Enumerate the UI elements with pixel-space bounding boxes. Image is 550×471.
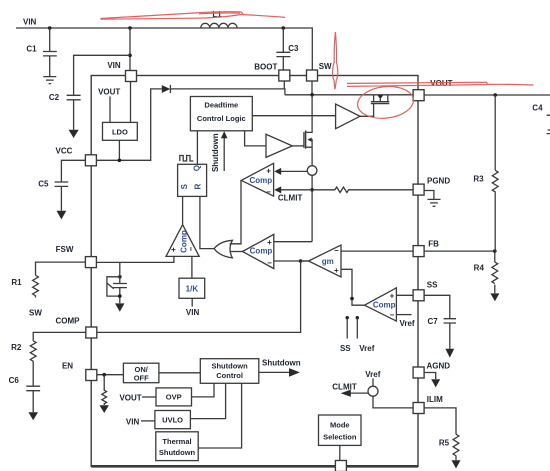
label CLMIT (Vref source) with arrow <box>332 383 368 397</box>
svg-text:BOOT: BOOT <box>254 63 277 72</box>
svg-text:C4: C4 <box>532 104 543 113</box>
wire SS comp- Vref stub <box>396 315 414 328</box>
pin SS <box>413 281 438 301</box>
wire gm out to COMP pin <box>97 261 309 332</box>
svg-text:ILIM: ILIM <box>427 395 443 404</box>
svg-text:UVLO: UVLO <box>162 416 183 425</box>
wire UVLO to shutdown control <box>190 383 225 418</box>
svg-text:OFF: OFF <box>134 374 149 383</box>
svg-text:SS: SS <box>340 344 351 353</box>
capacitor C7 <box>428 317 457 349</box>
comparator U2 current-limit Comp <box>241 163 273 196</box>
svg-text:COMP: COMP <box>56 316 81 325</box>
svg-text:gm: gm <box>322 257 334 266</box>
svg-text:Shutdown: Shutdown <box>159 448 196 457</box>
svg-text:SW: SW <box>319 62 332 71</box>
resistor Rsense <box>312 187 413 192</box>
wire gm- to FB <box>341 250 413 252</box>
block LDO <box>103 122 138 140</box>
ground (PGND) <box>424 191 440 207</box>
node dot C3 tap <box>282 26 286 30</box>
wire Thermal to shutdown control <box>198 383 241 448</box>
block Shutdown Control <box>200 359 258 384</box>
node dot gm+ tap <box>350 297 354 301</box>
wire Vref to circle <box>372 379 374 387</box>
block Mode Selection <box>319 415 362 445</box>
svg-text:AGND: AGND <box>427 362 451 371</box>
svg-text:VOUT: VOUT <box>430 79 452 88</box>
comparator U7 SS Comp <box>365 288 397 321</box>
block 1/K <box>179 278 205 298</box>
wire R3 top <box>494 95 496 170</box>
svg-text:VIN: VIN <box>186 308 200 317</box>
svg-text:+: + <box>334 266 339 275</box>
svg-text:PGND: PGND <box>427 176 450 185</box>
block OVP <box>156 388 192 406</box>
wire driver to NMOS gate <box>292 145 304 147</box>
annotation red stroke over VIN/L1 <box>101 12 285 20</box>
pin AGND <box>413 362 450 378</box>
wire ON/OFF to shutdown control <box>159 372 200 374</box>
wire 1/K to VIN label <box>191 298 193 306</box>
pin BOOT <box>254 63 290 82</box>
annotation red ellipse around PMOS <box>356 84 415 121</box>
pin PGND <box>413 176 450 195</box>
block Deadtime Control Logic <box>190 97 252 131</box>
pin FSW <box>56 245 97 268</box>
wire VCC pin left <box>61 160 85 181</box>
svg-text:VIN: VIN <box>107 61 121 70</box>
amplifier gm <box>309 245 342 277</box>
wire SW node down to NMOS drain <box>306 95 313 133</box>
svg-text:+: + <box>390 292 395 301</box>
node dot EN pulldown tap <box>102 373 106 377</box>
wire VIN to UVLO <box>141 420 155 422</box>
wire SS pin to C7 <box>424 295 450 318</box>
svg-text:SW: SW <box>29 308 42 317</box>
svg-text:Thermal: Thermal <box>162 437 191 446</box>
capacitor C3 <box>276 28 299 70</box>
pin FB <box>413 240 439 257</box>
svg-text:Q: Q <box>192 165 201 171</box>
svg-text:Shutdown: Shutdown <box>262 359 301 368</box>
svg-text:−: − <box>390 311 395 320</box>
label Shutdown (rotated) with arrow <box>211 131 227 172</box>
wire AGND ground <box>424 373 436 380</box>
buffer low-side driver <box>266 134 292 157</box>
annotation red vertical stroke near SW <box>333 32 338 89</box>
svg-text:CLMIT: CLMIT <box>332 383 357 392</box>
svg-text:Mode: Mode <box>330 421 350 430</box>
inductor L1 <box>201 10 237 28</box>
wire OR top input <box>230 243 241 245</box>
capacitor C1 <box>26 28 56 76</box>
svg-text:Comp: Comp <box>373 300 396 309</box>
resistor R4 <box>474 251 498 293</box>
svg-text:+: + <box>267 238 272 247</box>
svg-text:C6: C6 <box>9 376 20 385</box>
wire FSW pin left <box>36 262 86 275</box>
clock pulse symbol <box>180 156 194 162</box>
wire diode to BOOT/SW node <box>170 89 285 95</box>
resistor R3 <box>473 170 498 251</box>
comparator U6 slope Comp (up) <box>166 225 199 257</box>
ground arrow (EN) <box>100 405 109 413</box>
node dot SW junction <box>310 93 314 97</box>
svg-text:Comp: Comp <box>250 246 273 255</box>
node dot C2 tap <box>128 54 132 58</box>
svg-text:R3: R3 <box>473 175 484 184</box>
wire PWM+ to sense line <box>274 241 312 243</box>
svg-text:Vref: Vref <box>359 344 374 353</box>
svg-text:R1: R1 <box>11 278 22 287</box>
wire Mode Selection to bottom pin <box>339 445 341 460</box>
wire Q to deadtime <box>196 131 198 165</box>
svg-text:Shutdown: Shutdown <box>211 361 248 370</box>
capacitor C5 <box>38 180 68 211</box>
node dot VIN branch <box>128 26 132 30</box>
svg-text:OVP: OVP <box>166 393 182 402</box>
svg-text:EN: EN <box>62 361 73 370</box>
current sense circle <box>307 166 317 176</box>
svg-text:FSW: FSW <box>56 245 74 254</box>
svg-text:VIN: VIN <box>23 18 37 27</box>
ground arrow (C2) <box>69 130 79 138</box>
svg-text:−: − <box>267 258 272 267</box>
wire driver to PMOS gate <box>360 103 374 116</box>
ground arrow (C7) <box>445 349 454 358</box>
svg-text:S: S <box>180 183 189 189</box>
svg-text:+: + <box>169 247 178 252</box>
svg-text:ON/: ON/ <box>135 365 149 374</box>
wire circle to ILIM pin <box>373 396 413 408</box>
svg-text:Vref: Vref <box>399 319 414 328</box>
resistor R5 <box>439 434 459 460</box>
capacitor C2 <box>49 55 130 129</box>
resistor R1 <box>11 275 38 297</box>
wire/arrow CLMIT to Comp- <box>274 186 312 202</box>
node dot LDO/VCC <box>118 159 122 163</box>
pin VOUT <box>413 79 453 101</box>
pin bottom (mode) <box>335 461 346 471</box>
node dot snubber tap <box>118 275 122 279</box>
wire OR bottom input <box>230 251 243 253</box>
wire NMOS source to sense <box>311 147 313 166</box>
node dot FB divider <box>493 249 497 253</box>
svg-text:CLMIT: CLMIT <box>278 194 303 203</box>
transistor Q1 (PMOS pass) <box>371 95 390 104</box>
svg-text:−: − <box>334 246 339 255</box>
wire VIN pin feed <box>129 28 131 71</box>
svg-text:Control Logic: Control Logic <box>197 114 246 123</box>
wire switch node rail to VOUT pin <box>285 94 413 96</box>
wire CL comp out to OR <box>230 180 242 244</box>
node dot R3 tap <box>493 93 497 97</box>
ground arrow (C5) <box>57 211 67 220</box>
flip-flop U3 (S R Q latch) <box>178 164 207 196</box>
svg-text:C3: C3 <box>288 44 299 53</box>
wire COMP pin left <box>33 332 86 340</box>
svg-text:VOUT: VOUT <box>98 88 120 97</box>
node dot sense/CLMIT junction <box>310 188 314 192</box>
svg-text:VIN: VIN <box>126 417 140 426</box>
wire ILIM to R5 <box>424 408 456 434</box>
block UVLO <box>155 411 191 429</box>
resistor R2 <box>11 341 36 386</box>
svg-text:C1: C1 <box>26 45 37 54</box>
wire/arrow sense circle to Comp+ <box>274 168 307 175</box>
transistor Q2 (NMOS) <box>304 130 312 148</box>
wire sense down <box>311 175 313 241</box>
pin ILIM <box>413 395 443 414</box>
svg-text:FB: FB <box>428 240 439 249</box>
wire slope comp - to 1/K <box>191 256 193 278</box>
ground arrow (C6) <box>28 412 38 420</box>
buffer high-side driver <box>336 104 360 129</box>
wire OVP to shutdown control <box>192 383 215 397</box>
wire EN pin to ON/OFF <box>97 374 124 376</box>
capacitor C6 <box>9 376 41 412</box>
switch contacts SS/Vref <box>340 316 375 353</box>
block Thermal Shutdown <box>156 432 198 461</box>
wire VIN rail <box>16 28 312 70</box>
svg-text:Control: Control <box>216 371 243 380</box>
node VOUT rail (right of pin) <box>424 94 550 96</box>
wire PWM- / gm out <box>274 260 309 262</box>
pin EN <box>62 361 97 380</box>
wire VIN pin to LDO <box>130 82 132 123</box>
wire FB to divider <box>424 250 495 252</box>
svg-text:R4: R4 <box>474 264 485 273</box>
wire deadtime to high-side driver <box>252 115 335 117</box>
block ON/OFF <box>123 363 158 383</box>
or-gate U4 <box>214 240 232 258</box>
wire FSW line to slope comp + <box>96 256 173 262</box>
current source circle (ILIM) <box>368 386 378 396</box>
pin VCC <box>56 147 97 166</box>
comparator U5 PWM Comp <box>243 234 274 268</box>
ground arrow (R5) <box>452 460 461 468</box>
svg-text:+: + <box>266 167 271 176</box>
svg-text:VOUT: VOUT <box>119 394 141 403</box>
svg-text:1/K: 1/K <box>186 285 199 294</box>
capacitor C4 (edge clipped) <box>532 104 550 134</box>
wire SW pin down to switch node <box>311 81 313 95</box>
svg-text:−: − <box>266 188 271 197</box>
wire VOUT label to LDO <box>109 97 111 123</box>
pin VIN <box>107 61 136 82</box>
svg-text:SS: SS <box>427 281 438 290</box>
svg-text:Deadtime: Deadtime <box>204 101 238 110</box>
svg-text:−: − <box>187 246 196 251</box>
ground arrow (snubber) <box>115 303 124 311</box>
svg-text:C5: C5 <box>38 180 49 189</box>
svg-text:VCC: VCC <box>56 147 73 156</box>
svg-text:C7: C7 <box>428 317 439 326</box>
wire R input <box>200 196 214 248</box>
wire VOUT to OVP <box>142 396 156 398</box>
wire VCC to diode <box>96 89 161 160</box>
node dot C1 tap <box>48 26 52 30</box>
resistor R-EN pulldown <box>102 375 107 405</box>
annotation red stroke over VOUT <box>347 82 534 86</box>
svg-text:R5: R5 <box>439 439 450 448</box>
ground arrow (AGND) <box>431 379 440 387</box>
svg-text:R2: R2 <box>11 343 22 352</box>
svg-text:C2: C2 <box>49 93 60 102</box>
snubber switch-cap network <box>107 262 127 303</box>
ground (C1) <box>43 77 56 84</box>
wire/arrow Shutdown output <box>259 359 301 377</box>
wire BOOT pin to diode node <box>283 81 285 89</box>
wire S input <box>182 196 184 224</box>
node dot gm out <box>299 259 303 263</box>
svg-text:R: R <box>193 183 202 189</box>
IC boundary outline <box>91 76 418 467</box>
svg-text:Vref: Vref <box>365 370 380 379</box>
wire LDO out to VCC line <box>118 140 120 160</box>
svg-text:Shutdown: Shutdown <box>211 133 220 172</box>
svg-text:LDO: LDO <box>112 128 128 137</box>
diode D1 <box>162 85 171 93</box>
ground arrow (R4) <box>490 293 499 301</box>
svg-text:Selection: Selection <box>323 433 357 442</box>
svg-text:Comp: Comp <box>249 176 272 185</box>
wire deadtime to low-side driver <box>245 131 266 146</box>
pin COMP <box>56 316 97 338</box>
wire SS comp+ to SS pin <box>396 294 413 296</box>
wire gm+ branch <box>341 269 365 305</box>
pin SW <box>307 62 333 81</box>
